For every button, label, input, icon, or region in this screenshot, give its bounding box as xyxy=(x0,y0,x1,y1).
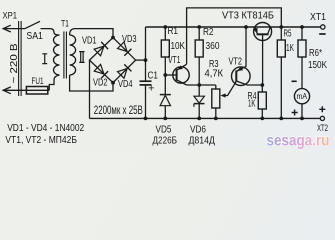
svg-text:R1: R1 xyxy=(168,25,179,37)
svg-text:VD2: VD2 xyxy=(93,77,108,89)
svg-text:R5: R5 xyxy=(284,27,292,39)
svg-text:~ 220 В: ~ 220 В xyxy=(9,43,20,83)
svg-text:FU1: FU1 xyxy=(32,76,44,87)
svg-text:VD3: VD3 xyxy=(122,33,137,45)
svg-text:VT2: VT2 xyxy=(229,56,243,68)
svg-text:1K: 1K xyxy=(286,42,294,54)
svg-text:mA: mA xyxy=(297,92,308,101)
svg-text:150K: 150K xyxy=(308,59,327,71)
svg-text:VD1 - VD4 - 1N4002: VD1 - VD4 - 1N4002 xyxy=(7,123,84,134)
svg-text:+: + xyxy=(148,83,154,95)
svg-text:VT1: VT1 xyxy=(168,54,181,66)
svg-text:10K: 10K xyxy=(171,40,186,52)
svg-text:360: 360 xyxy=(206,40,220,52)
svg-text:C1: C1 xyxy=(148,70,159,82)
svg-text:VD1: VD1 xyxy=(82,34,97,46)
svg-text:sesaga.ru: sesaga.ru xyxy=(267,132,330,149)
svg-text:XT1: XT1 xyxy=(310,11,326,23)
svg-text:4,7К: 4,7К xyxy=(205,67,224,79)
svg-text:Д814Д: Д814Д xyxy=(189,134,216,146)
svg-text:R2: R2 xyxy=(203,26,214,38)
svg-text:Д226Б: Д226Б xyxy=(153,134,178,146)
svg-text:XP1: XP1 xyxy=(3,10,18,21)
svg-text:1K: 1K xyxy=(248,97,256,109)
svg-text:VT3 КТ814Б: VT3 КТ814Б xyxy=(222,9,274,21)
svg-text:VD4: VD4 xyxy=(118,78,133,90)
svg-text:VT1, VT2 - МП42Б: VT1, VT2 - МП42Б xyxy=(5,135,77,146)
svg-text:SA1: SA1 xyxy=(26,30,43,42)
svg-text:2200мк x 25В: 2200мк x 25В xyxy=(94,103,143,117)
svg-text:R6*: R6* xyxy=(309,47,322,59)
svg-text:T1: T1 xyxy=(61,19,69,29)
